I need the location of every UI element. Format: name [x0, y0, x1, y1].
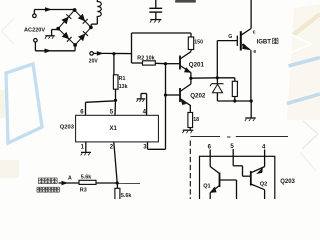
terminal 20V: [90, 52, 94, 56]
resistor Rg: [232, 81, 237, 96]
wire: [115, 89, 117, 100]
wire: [114, 142, 117, 183]
wire: [217, 77, 235, 79]
wire: [190, 50, 192, 52]
arrow on AC top wire: [45, 7, 52, 12]
capacitor C1: [155, 0, 157, 8]
wire: [217, 100, 251, 102]
transistor Q1: [219, 173, 221, 188]
wire: [34, 42, 36, 51]
arrow on AC bottom wire: [45, 49, 52, 54]
terminal AC L2: [34, 39, 38, 43]
resistor R4 5.6k: [115, 188, 120, 199]
svg-text:Q2: Q2: [260, 182, 267, 188]
wire: [96, 17, 98, 24]
wire: [250, 101, 252, 118]
inductor L1 (choke): [97, 0, 101, 17]
wire: [114, 100, 117, 115]
wire: [264, 150, 266, 157]
diode bridge D1 (L-T): [58, 10, 74, 29]
svg-text:Q201: Q201: [189, 61, 205, 68]
svg-text:Q203: Q203: [280, 179, 295, 185]
node R1 top: [112, 52, 115, 55]
dashed box Q203 left: [189, 141, 191, 200]
transistor Q2: [250, 171, 252, 186]
IC internals box: [200, 156, 275, 202]
wire: [165, 64, 167, 150]
decorative left chevron: [2, 19, 15, 45]
node under R1: [114, 99, 117, 102]
svg-text:IGBT: IGBT: [257, 40, 272, 46]
ground: [245, 117, 256, 119]
wire: [190, 73, 192, 85]
ground: [137, 98, 146, 100]
arrow A: [62, 181, 69, 185]
svg-text:R2 10k: R2 10k: [137, 55, 154, 61]
node bridge right: [89, 26, 93, 30]
arrow on 20V wire: [97, 51, 104, 56]
node R3 junction: [116, 181, 119, 184]
wire: [209, 150, 211, 157]
wire: [117, 182, 140, 184]
decorative tan stripe: [293, 14, 320, 35]
wire: [52, 29, 59, 31]
decorative left cream strip: [0, 90, 5, 118]
ground: [45, 35, 55, 37]
wire: [93, 52, 97, 54]
diode bridge D4 (B-R): [75, 27, 91, 45]
diode bridge D2 (T-R): [75, 10, 91, 27]
decorative bottom-left beige patch: [0, 160, 19, 178]
svg-text:c: c: [253, 30, 256, 36]
resistor 18: [188, 113, 193, 128]
node bridge top: [73, 8, 77, 12]
decorative bottom-right line: [300, 152, 316, 171]
wire: [232, 156, 234, 166]
resistor R1: [113, 75, 118, 89]
wire: [132, 62, 143, 64]
decorative tilted frame: [6, 64, 42, 143]
svg-text:Q203: Q203: [60, 124, 75, 130]
wire: [33, 10, 35, 15]
wire: [86, 101, 116, 103]
zener VZ: [216, 78, 218, 84]
label dian-nao-ban: [39, 178, 45, 184]
wire: [190, 33, 192, 37]
wire: [220, 179, 237, 181]
decorative white chevron: [290, 34, 311, 53]
dashed box Q203 top: [191, 136, 221, 138]
node Q201 base: [164, 62, 167, 65]
wire: [234, 97, 236, 102]
node Q202 base: [164, 93, 167, 96]
node bridge left: [56, 27, 60, 31]
svg-text:5.6k: 5.6k: [81, 175, 92, 181]
node emitter: [250, 99, 253, 102]
wire: [209, 156, 211, 166]
terminal AC L1: [33, 14, 37, 18]
svg-text:5.6k: 5.6k: [121, 193, 131, 199]
transistor Q202: [179, 88, 181, 102]
decorative right panel: [287, 4, 320, 120]
decorative bottom-right chevron: [302, 121, 318, 149]
wire: [59, 182, 80, 184]
wire: [216, 41, 218, 78]
wire: [85, 142, 87, 152]
wire: [131, 33, 133, 63]
wire: [232, 149, 234, 156]
scan smudge: [175, 0, 196, 3]
IGBT V1: [236, 36, 238, 46]
svg-text:Q1: Q1: [203, 183, 210, 189]
ground: [150, 19, 161, 21]
ground: [183, 129, 194, 131]
svg-text:AC220V: AC220V: [24, 28, 45, 34]
svg-text:G: G: [228, 34, 232, 40]
svg-text:13k: 13k: [119, 84, 128, 90]
node gate drive: [216, 76, 219, 79]
wire: [147, 142, 149, 149]
svg-text:18: 18: [193, 117, 199, 123]
svg-text:Q202: Q202: [190, 93, 206, 100]
IC X1 (Q203): [76, 115, 159, 142]
wire: [189, 128, 191, 130]
wire: [189, 106, 191, 113]
node driver output: [189, 77, 192, 80]
wire: [96, 182, 117, 184]
wire: [146, 94, 148, 116]
label kong-zhi-xin-hao: [37, 187, 42, 192]
wire: [155, 62, 165, 64]
svg-text:R1: R1: [119, 76, 126, 82]
ground: [81, 151, 91, 153]
svg-text:e: e: [253, 49, 256, 55]
resistor 150: [188, 37, 193, 50]
resistor R3: [79, 180, 96, 184]
resistor R2: [143, 61, 156, 65]
svg-text:20V: 20V: [89, 59, 99, 65]
svg-text:R3: R3: [80, 187, 87, 193]
svg-text:X1: X1: [110, 126, 118, 132]
node Rg bottom: [233, 99, 236, 102]
wire: [191, 77, 217, 79]
svg-text:A: A: [68, 175, 72, 181]
transistor Q201: [179, 56, 181, 70]
node bridge bottom: [73, 43, 77, 47]
svg-text:150: 150: [194, 39, 203, 45]
diode bridge D3 (L-B): [58, 29, 75, 45]
decorative blue stripe 1: [289, 58, 320, 67]
wire: [116, 183, 118, 188]
decorative blue stripe 2: [287, 94, 320, 104]
wire: [113, 54, 115, 75]
